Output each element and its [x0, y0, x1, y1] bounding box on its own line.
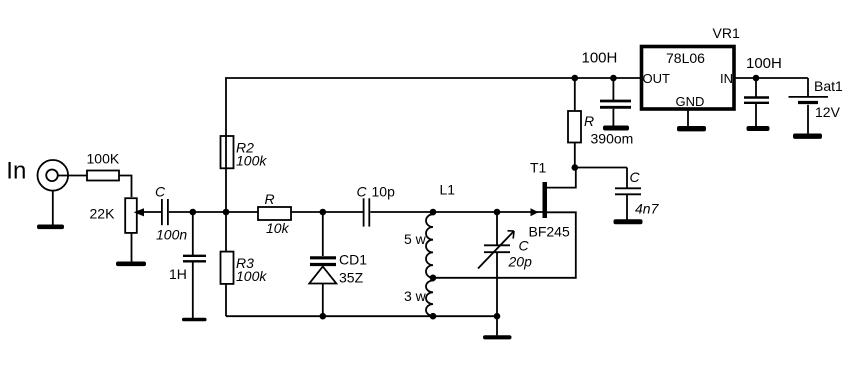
svg-text:Bat1: Bat1: [814, 78, 843, 94]
svg-text:100k: 100k: [236, 268, 267, 284]
svg-text:C: C: [519, 238, 530, 254]
svg-text:R: R: [584, 113, 594, 129]
svg-text:100K: 100K: [87, 151, 120, 167]
svg-text:20p: 20p: [508, 254, 533, 270]
svg-text:C: C: [630, 169, 641, 185]
svg-text:100H: 100H: [746, 55, 782, 72]
svg-text:10k: 10k: [266, 220, 290, 236]
svg-text:In: In: [6, 158, 26, 185]
svg-text:C: C: [357, 184, 368, 200]
svg-text:35Z: 35Z: [339, 270, 364, 286]
svg-text:100H: 100H: [582, 50, 618, 67]
svg-text:5 w: 5 w: [404, 231, 427, 247]
svg-text:390om: 390om: [591, 131, 634, 147]
svg-text:C: C: [155, 184, 166, 200]
svg-text:100k: 100k: [236, 153, 267, 169]
svg-text:GND: GND: [676, 94, 705, 109]
svg-text:12V: 12V: [815, 104, 841, 120]
svg-text:10p: 10p: [372, 184, 396, 200]
svg-text:78L06: 78L06: [666, 50, 705, 66]
svg-text:22K: 22K: [90, 206, 116, 222]
svg-text:4n7: 4n7: [635, 201, 660, 217]
svg-text:T1: T1: [530, 160, 547, 176]
svg-text:L1: L1: [440, 182, 456, 198]
svg-text:100n: 100n: [156, 227, 187, 243]
svg-text:3 w: 3 w: [404, 288, 427, 304]
svg-text:BF245: BF245: [529, 224, 570, 240]
svg-text:R: R: [265, 191, 275, 207]
svg-text:IN: IN: [720, 71, 733, 86]
svg-text:CD1: CD1: [339, 252, 367, 268]
svg-text:OUT: OUT: [643, 71, 671, 86]
svg-text:VR1: VR1: [713, 25, 740, 41]
svg-text:1H: 1H: [169, 266, 187, 282]
